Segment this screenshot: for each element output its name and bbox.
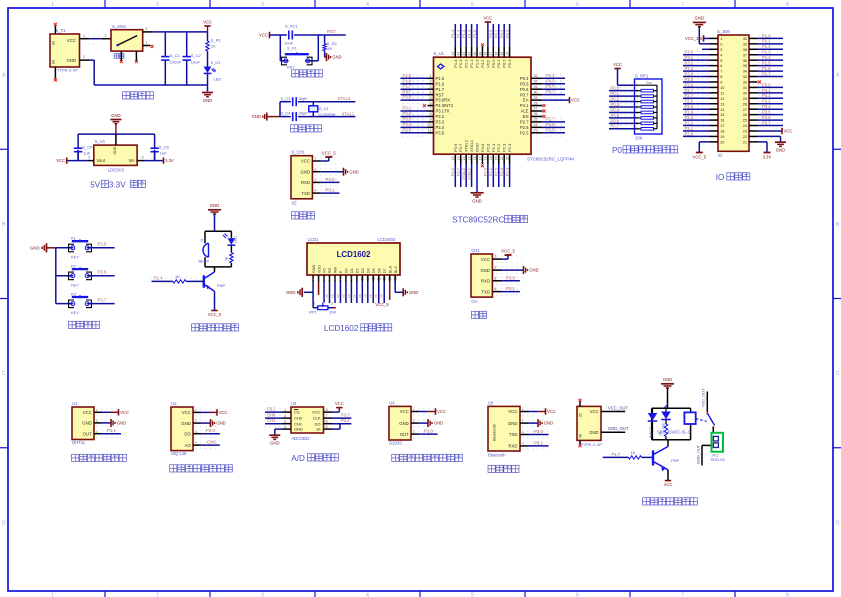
svg-text:2: 2 — [83, 55, 85, 59]
net label XTAL1 — [342, 111, 355, 116]
wire IO pin22 to GND — [758, 136, 781, 141]
svg-text:2: 2 — [156, 2, 159, 8]
diode LED (relay) — [661, 405, 671, 430]
svg-text:18: 18 — [484, 156, 488, 160]
svg-text:4: 4 — [284, 425, 286, 429]
svg-text:13: 13 — [457, 156, 461, 160]
svg-text:2: 2 — [284, 414, 286, 418]
svg-text:P3.5: P3.5 — [436, 130, 445, 135]
ground GND (power module) — [202, 93, 213, 104]
svg-text:1K: 1K — [211, 44, 216, 49]
svg-text:S_C2: S_C2 — [191, 53, 202, 58]
wire U5 VCC — [529, 411, 546, 413]
svg-text:P2.7: P2.7 — [520, 120, 529, 125]
svg-text:CH1: CH1 — [471, 248, 480, 253]
svg-text:6: 6 — [340, 277, 342, 281]
svg-text:S_RP1: S_RP1 — [635, 73, 649, 78]
sensor U4 D203S — [389, 400, 437, 445]
svg-text:VCC: VCC — [508, 409, 517, 414]
wire CH TXD — [502, 291, 520, 293]
wire reset rail right — [294, 34, 346, 36]
svg-text:S_JD6: S_JD6 — [717, 29, 730, 34]
capacitor S_C5 1uF — [74, 144, 93, 160]
svg-text:GND: GND — [294, 427, 303, 432]
svg-text:P2.4: P2.4 — [507, 143, 512, 152]
wire reset right drop — [317, 35, 319, 61]
svg-text:14: 14 — [462, 156, 466, 160]
svg-text:21: 21 — [500, 156, 504, 160]
wire VCC_OUT to switch — [701, 388, 708, 412]
svg-text:V5: V5 — [325, 294, 329, 298]
ground GND (LCD right) — [403, 288, 418, 296]
svg-text:39: 39 — [743, 42, 747, 46]
wire R2 to GND — [325, 51, 327, 57]
svg-text:P3.1TX: P3.1TX — [436, 109, 450, 114]
svg-text:GND: GND — [82, 421, 92, 426]
LCD data/control wires — [325, 282, 384, 304]
svg-text:P1.6: P1.6 — [436, 81, 445, 86]
connector S_JD6 (IO expansion) — [717, 29, 749, 158]
svg-text:P1.1: P1.1 — [107, 428, 116, 433]
MCU right pins 33-23 — [520, 74, 542, 135]
svg-text:OUT: OUT — [400, 432, 409, 437]
ADC U3 ADC0832 — [283, 401, 333, 441]
svg-text:1: 1 — [51, 593, 54, 597]
svg-text:P3.0RX: P3.0RX — [436, 98, 451, 103]
svg-text:S_X1: S_X1 — [319, 106, 330, 111]
svg-text:D: D — [2, 520, 6, 526]
svg-text:P3.3: P3.3 — [685, 66, 694, 71]
svg-text:3: 3 — [261, 593, 264, 597]
wire xtal2 rail — [280, 101, 355, 103]
svg-text:3: 3 — [142, 156, 144, 160]
resistor 1K (relay LED) — [659, 420, 668, 440]
svg-text:34: 34 — [743, 70, 747, 74]
svg-text:3: 3 — [494, 276, 496, 280]
switch bottom pin stubs — [121, 51, 136, 60]
pin LDO GND stub — [115, 134, 117, 145]
svg-text:P3.0: P3.0 — [762, 82, 771, 87]
svg-text:5: 5 — [429, 96, 431, 100]
connector JK1 SRD-05 — [711, 433, 726, 462]
svg-text:1: 1 — [284, 408, 286, 412]
wire U2 VCC — [201, 411, 218, 413]
svg-text:100uF: 100uF — [170, 59, 182, 64]
resistor (alarm LED) 1K — [224, 245, 233, 267]
net label P3.0 (download) — [326, 177, 335, 182]
stub relay connector top — [579, 402, 581, 407]
svg-text:3: 3 — [331, 302, 333, 306]
svg-text:VCC: VCC — [182, 410, 191, 415]
svg-text:P3.4: P3.4 — [436, 125, 445, 130]
svg-text:P0: P0 — [612, 146, 622, 155]
wire U1 GND — [102, 422, 112, 424]
svg-text:P3.6: P3.6 — [762, 115, 771, 120]
wire U3 GND — [275, 429, 283, 434]
svg-text:32: 32 — [743, 81, 747, 85]
no-ERC X on S_T1 bottom pin — [54, 79, 57, 82]
wire C5 join — [77, 150, 79, 161]
svg-text:VCC_5: VCC_5 — [693, 154, 707, 159]
svg-text:6: 6 — [429, 101, 431, 105]
power port VCC (U3) — [335, 401, 344, 407]
svg-text:D: D — [836, 520, 840, 526]
wire U3 DO — [332, 418, 351, 424]
svg-text:6: 6 — [720, 64, 722, 68]
svg-text:GND: GND — [117, 421, 126, 426]
svg-text:6: 6 — [576, 593, 579, 597]
wire VCC to RP1 pin1 — [618, 69, 635, 86]
svg-text:11: 11 — [428, 129, 432, 133]
svg-text:D3: D3 — [360, 268, 365, 273]
wire relay collector — [667, 440, 669, 447]
svg-text:K2: K2 — [71, 264, 77, 269]
svg-text:44: 44 — [451, 52, 455, 56]
svg-text:LCD1: LCD1 — [308, 237, 319, 242]
svg-text:P2.6: P2.6 — [520, 125, 529, 130]
svg-text:P2.6: P2.6 — [685, 99, 694, 104]
svg-text:GND: GND — [300, 169, 310, 174]
svg-text:P0.1: P0.1 — [496, 59, 501, 68]
svg-text:13: 13 — [377, 277, 381, 281]
svg-text:VCC: VCC — [483, 16, 492, 21]
svg-text:34: 34 — [505, 52, 509, 56]
svg-text:1: 1 — [413, 407, 415, 411]
svg-text:2: 2 — [413, 419, 415, 423]
pin Vin stub — [137, 156, 144, 161]
svg-text:D7: D7 — [382, 268, 387, 273]
wire U5 GND — [529, 422, 539, 424]
svg-text:P4.1: P4.1 — [520, 103, 529, 108]
svg-text:GND: GND — [399, 421, 409, 426]
svg-text:4: 4 — [494, 287, 496, 291]
svg-text:S_SW1: S_SW1 — [112, 24, 127, 29]
ground GND (download) — [344, 168, 359, 176]
svg-text:RXD: RXD — [481, 279, 490, 284]
crystal S_X1 11.0592M — [309, 102, 336, 117]
pin stubs S_CH1 — [312, 157, 340, 197]
net label P1.0 — [424, 429, 433, 434]
wire D1 to ground rail — [207, 73, 209, 85]
wire VCC_OUT — [601, 405, 628, 411]
svg-text:11: 11 — [366, 277, 370, 281]
svg-text:V5: V5 — [380, 294, 384, 298]
svg-text:8: 8 — [720, 75, 722, 79]
svg-text:7: 7 — [345, 277, 347, 281]
svg-text:STC89C52RC: STC89C52RC — [452, 216, 504, 225]
wire xtal1 rail — [280, 116, 355, 118]
svg-text:15: 15 — [720, 113, 724, 117]
svg-text:GND: GND — [508, 421, 518, 426]
svg-text:1: 1 — [96, 408, 98, 412]
svg-text:VCC: VCC — [784, 129, 793, 134]
svg-text:P4.3INT2: P4.3INT2 — [436, 103, 454, 108]
pin 1 S_SW1 lower stub — [143, 41, 151, 46]
svg-text:CH: CH — [471, 299, 477, 304]
no-ERC X on MCU bottom pin 17 — [481, 164, 484, 167]
svg-text:1K: 1K — [224, 256, 228, 261]
svg-text:23: 23 — [743, 130, 747, 134]
svg-text:16: 16 — [393, 277, 397, 281]
net label P3.1 (serial) — [506, 286, 515, 291]
wire key bus vertical — [55, 248, 57, 304]
svg-text:8: 8 — [350, 277, 352, 281]
wire CH RXD — [502, 280, 520, 282]
caption key circuit — [69, 321, 100, 328]
ground GND (U4) — [428, 419, 443, 427]
svg-text:16: 16 — [720, 119, 724, 123]
wire U5 TXD — [529, 434, 549, 436]
svg-text:D2: D2 — [355, 268, 360, 273]
svg-text:P2.2: P2.2 — [685, 120, 694, 125]
svg-text:PNP: PNP — [671, 458, 680, 463]
svg-text:P2.3: P2.3 — [685, 115, 694, 120]
svg-text:KEY: KEY — [71, 254, 79, 259]
svg-text:9: 9 — [356, 277, 358, 281]
connector (relay TYPE-C-2P) — [577, 406, 602, 446]
svg-text:OUT: OUT — [83, 431, 92, 436]
svg-text:XZ: XZ — [291, 201, 297, 206]
svg-text:4: 4 — [329, 277, 331, 281]
svg-text:TXD: TXD — [481, 289, 490, 294]
power port VCC (LDO in) — [56, 157, 66, 163]
svg-text:24: 24 — [743, 124, 747, 128]
MCU U1 STC89C52RC body — [434, 51, 575, 161]
svg-text:7: 7 — [681, 2, 684, 8]
svg-text:D4: D4 — [366, 267, 371, 273]
svg-text:16: 16 — [473, 156, 477, 160]
svg-text:3: 3 — [284, 420, 286, 424]
capacitor S_C1 100uF — [161, 32, 182, 85]
wire T1 GND to rail — [89, 59, 94, 61]
svg-text:2: 2 — [88, 156, 90, 160]
transistor Q1 PNP (alarm) — [204, 272, 226, 291]
svg-text:27: 27 — [534, 107, 538, 111]
svg-text:1: 1 — [51, 2, 54, 8]
svg-text:DI: DI — [317, 427, 321, 432]
svg-text:P1.7: P1.7 — [762, 71, 771, 76]
svg-text:S_D1: S_D1 — [211, 60, 222, 65]
resistor network S_RP1 10K box — [635, 73, 663, 140]
pin 3 S_SW1 stub — [143, 27, 153, 32]
svg-text:V5: V5 — [363, 294, 367, 298]
svg-text:2: 2 — [318, 277, 320, 281]
wires P0 bus to RP1 with net labels — [609, 86, 635, 129]
svg-text:14: 14 — [720, 108, 724, 112]
wire bus to K3 — [56, 303, 73, 305]
wire LDO top rail — [78, 134, 155, 145]
wire relay loop — [652, 408, 691, 440]
svg-text:4: 4 — [366, 2, 369, 8]
svg-text:S_CH1: S_CH1 — [291, 150, 305, 155]
caption MCU — [452, 215, 527, 224]
svg-text:43: 43 — [457, 52, 461, 56]
connector S_CH1 (download port) — [291, 150, 312, 206]
svg-text:P3.6: P3.6 — [453, 143, 458, 152]
svg-text:P2.0: P2.0 — [485, 143, 490, 152]
svg-text:42: 42 — [462, 52, 466, 56]
svg-text:D6: D6 — [376, 268, 381, 273]
power port VCC (MCU top) — [483, 16, 492, 22]
svg-text:IN4007: IN4007 — [649, 427, 653, 438]
net label P3.5 — [98, 242, 107, 247]
caption IO expansion — [716, 173, 750, 182]
svg-text:U3: U3 — [52, 60, 56, 64]
power port VCC (EA pin) — [570, 97, 580, 103]
svg-text:S_U1: S_U1 — [434, 51, 445, 56]
wire power bottom rail — [94, 60, 207, 91]
svg-text:1: 1 — [83, 34, 85, 38]
transistor Q2 PNP (relay) — [653, 447, 680, 472]
svg-text:12: 12 — [371, 277, 375, 281]
wire bus to K2 — [56, 275, 73, 277]
svg-text:5: 5 — [720, 59, 722, 63]
svg-text:DO: DO — [315, 421, 321, 426]
svg-text:P1.1: P1.1 — [469, 59, 474, 68]
svg-text:15: 15 — [388, 277, 392, 281]
svg-text:VCC_5: VCC_5 — [208, 312, 222, 317]
svg-text:1: 1 — [314, 157, 316, 161]
switch S_SW1 — [111, 24, 143, 51]
net label P1.1 — [107, 428, 116, 433]
svg-text:D5: D5 — [371, 268, 376, 273]
svg-text:P2.3: P2.3 — [499, 167, 504, 176]
svg-text:GND: GND — [252, 114, 261, 119]
svg-text:VO: VO — [322, 268, 327, 274]
resistor S_R2 1K — [323, 35, 338, 51]
capacitor S_C6 1uF — [150, 144, 169, 160]
svg-text:5V: 5V — [90, 181, 101, 190]
sensor U1 DHT11 — [72, 401, 120, 445]
svg-text:GND: GND — [480, 268, 490, 273]
wire CH1 GND — [321, 171, 344, 173]
caption alarm circuit — [192, 324, 239, 331]
svg-text:18: 18 — [720, 130, 724, 134]
svg-text:P1.5: P1.5 — [436, 76, 445, 81]
svg-text:CLK: CLK — [313, 416, 321, 421]
resistor S_R1 1K — [206, 32, 222, 51]
push-button K1 — [69, 236, 92, 260]
net label P3.1 (download) — [326, 188, 335, 193]
svg-text:S_T1: S_T1 — [56, 28, 67, 33]
svg-text:P2.5: P2.5 — [520, 130, 529, 135]
svg-text:1: 1 — [314, 302, 316, 306]
svg-text:P1.2: P1.2 — [762, 44, 771, 49]
svg-text:XTAL1: XTAL1 — [466, 167, 471, 180]
svg-text:1: 1 — [312, 277, 314, 281]
svg-text:RS: RS — [327, 267, 332, 273]
wire LCD VDD pin2 — [318, 282, 320, 296]
potentiometer RP1 10K (LCD) — [309, 302, 336, 315]
svg-text:Vout: Vout — [97, 158, 106, 163]
ground GND (reset) — [327, 53, 342, 61]
svg-text:P2.1: P2.1 — [488, 167, 493, 176]
svg-text:P3.1: P3.1 — [762, 88, 771, 93]
wire IO pin21 to 3.3V — [758, 142, 772, 159]
svg-text:38: 38 — [743, 48, 747, 52]
svg-text:VCC_OUT: VCC_OUT — [608, 405, 628, 410]
svg-text:LDO3V3: LDO3V3 — [108, 167, 125, 172]
svg-text:S_C6: S_C6 — [159, 144, 170, 149]
svg-text:GND: GND — [349, 169, 358, 174]
ground GND (alarm) — [208, 203, 221, 231]
svg-text:VCC: VCC — [664, 482, 673, 487]
svg-text:P3.1: P3.1 — [326, 188, 335, 193]
svg-text:TXD: TXD — [509, 432, 518, 437]
power port VCC (relay) — [664, 481, 673, 487]
svg-text:VCC: VCC — [120, 410, 129, 415]
svg-text:5: 5 — [334, 277, 336, 281]
svg-text:VCC: VCC — [301, 159, 310, 164]
wire crystal left drop — [279, 102, 281, 117]
svg-text:4: 4 — [720, 53, 722, 57]
svg-text:KEY: KEY — [71, 282, 79, 287]
svg-text:27: 27 — [743, 108, 747, 112]
ground GND (U2) — [211, 419, 226, 427]
svg-text:STC89C52RC_LQFP44: STC89C52RC_LQFP44 — [527, 157, 574, 162]
svg-text:P1.1: P1.1 — [762, 39, 771, 44]
svg-text:26: 26 — [743, 113, 747, 117]
svg-text:24: 24 — [534, 123, 538, 127]
power port VCC_5 (serial) — [501, 248, 515, 255]
svg-text:4: 4 — [314, 189, 316, 193]
svg-text:TXD: TXD — [301, 191, 310, 196]
wire to PNP collector — [214, 267, 216, 272]
svg-text:AO: AO — [185, 443, 192, 448]
svg-text:LCD1602: LCD1602 — [337, 250, 371, 259]
pin S_T1 top stub — [54, 26, 56, 35]
power port VCC_5 (download) — [322, 150, 336, 157]
svg-text:P3.5: P3.5 — [98, 242, 107, 247]
svg-text:29: 29 — [743, 97, 747, 101]
svg-text:VCC_5: VCC_5 — [322, 150, 336, 155]
svg-text:P2.7: P2.7 — [685, 93, 694, 98]
wire CH1 RXD — [321, 181, 340, 183]
power port VCC (U1) — [119, 409, 129, 415]
svg-text:P2.0: P2.0 — [483, 167, 488, 176]
svg-text:KEY: KEY — [71, 310, 79, 315]
caption serial port — [471, 311, 486, 318]
wire PNP emitter to VCC_5 — [214, 291, 216, 310]
caption 5V to 3.3V circuit — [90, 180, 145, 189]
diode D (flyback left) — [648, 413, 658, 438]
svg-text:Vin: Vin — [129, 158, 136, 163]
wire key left join — [280, 60, 288, 62]
wire GND_OUT — [601, 426, 629, 432]
MCU top wires and net labels — [450, 24, 510, 46]
svg-text:P3.1: P3.1 — [506, 286, 515, 291]
svg-text:VCC_5: VCC_5 — [375, 302, 389, 307]
wire alarm top node — [205, 230, 231, 232]
svg-text:GND: GND — [216, 421, 225, 426]
svg-text:P1.0: P1.0 — [424, 429, 433, 434]
svg-text:8: 8 — [786, 593, 789, 597]
svg-text:ALE: ALE — [521, 109, 529, 114]
svg-text:RXD: RXD — [508, 444, 517, 449]
svg-text:P0.0: P0.0 — [611, 86, 620, 91]
svg-text:P2.0: P2.0 — [206, 428, 215, 433]
svg-text:VCC_5: VCC_5 — [501, 248, 515, 253]
wire relay emitter to VCC — [667, 470, 669, 481]
svg-text:Bluetooth: Bluetooth — [492, 424, 497, 441]
ground GND (relay) — [661, 377, 674, 408]
svg-text:10K: 10K — [635, 136, 643, 141]
no-ERC X on IO pin 32 — [758, 80, 761, 83]
svg-text:C: C — [836, 371, 840, 377]
regulator S_V1 LDO3V3 — [94, 139, 137, 172]
ground GND (crystal) — [252, 113, 280, 121]
svg-text:P2.2: P2.2 — [496, 143, 501, 152]
